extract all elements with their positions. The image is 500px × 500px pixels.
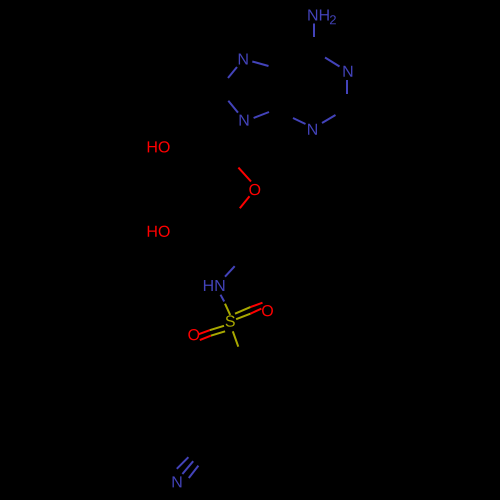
- node N3 label: [308, 124, 317, 135]
- node N nitrile label: [173, 476, 182, 487]
- wire NH2-C6 half-bond: [313, 24, 315, 38]
- node HN sulfonamide label: [204, 280, 224, 291]
- wire nitrile triple bond line 1 N half: [177, 457, 189, 469]
- wire N9-C4 half-bond: [254, 112, 269, 118]
- node O ring oxygen label: [249, 184, 260, 195]
- node NH2 amine N+H label: [308, 9, 328, 20]
- node N7 label: [239, 53, 248, 64]
- node N1 label: [343, 66, 352, 77]
- wire C2-N3 half-bond: [322, 115, 336, 123]
- wire nitrile triple bond line 3 N half: [189, 466, 199, 478]
- wire N7-C8 half-bond: [228, 67, 237, 78]
- node O sulfonyl right label: [262, 305, 273, 316]
- wire nitrile triple bond line 2 N half: [182, 461, 193, 474]
- wire N7-C5 half-bond: [252, 62, 268, 67]
- node NH2 amine subscript 2 label: [330, 15, 336, 24]
- wire CH2-NH half-bond: [225, 266, 235, 277]
- wire NH-S half-bond S side: [225, 304, 230, 315]
- wire S=O left lower line S half: [211, 331, 225, 335]
- wire S=O right lower line O half: [250, 309, 261, 314]
- node N9 label: [240, 115, 249, 126]
- wire S-C aryl half-bond: [233, 331, 239, 346]
- wire S=O left upper line O half: [199, 330, 210, 334]
- wire N3-C4 half-bond: [293, 118, 306, 124]
- wire C6-N1 half-bond: [325, 58, 340, 67]
- wire N9-C8 half-bond: [228, 101, 238, 113]
- wire C1'-O ring half-bond: [238, 168, 251, 182]
- wire NH-S half-bond N side: [221, 295, 225, 302]
- node S sulfur label: [226, 315, 235, 326]
- node HO top hydroxyl label: [148, 141, 170, 152]
- wire N1-C2 half-bond: [346, 80, 348, 94]
- wire S=O right upper line S half: [235, 307, 250, 314]
- wire S=O left upper line S half: [210, 326, 224, 330]
- wire S=O right upper line O half: [250, 303, 262, 307]
- wire S=O left lower line O half: [200, 336, 211, 340]
- node HO bottom hydroxyl label: [148, 226, 170, 237]
- wire O ring-C4' half-bond: [240, 196, 250, 208]
- wire S=O right lower line S half: [236, 314, 250, 320]
- node O sulfonyl left label: [188, 329, 199, 340]
